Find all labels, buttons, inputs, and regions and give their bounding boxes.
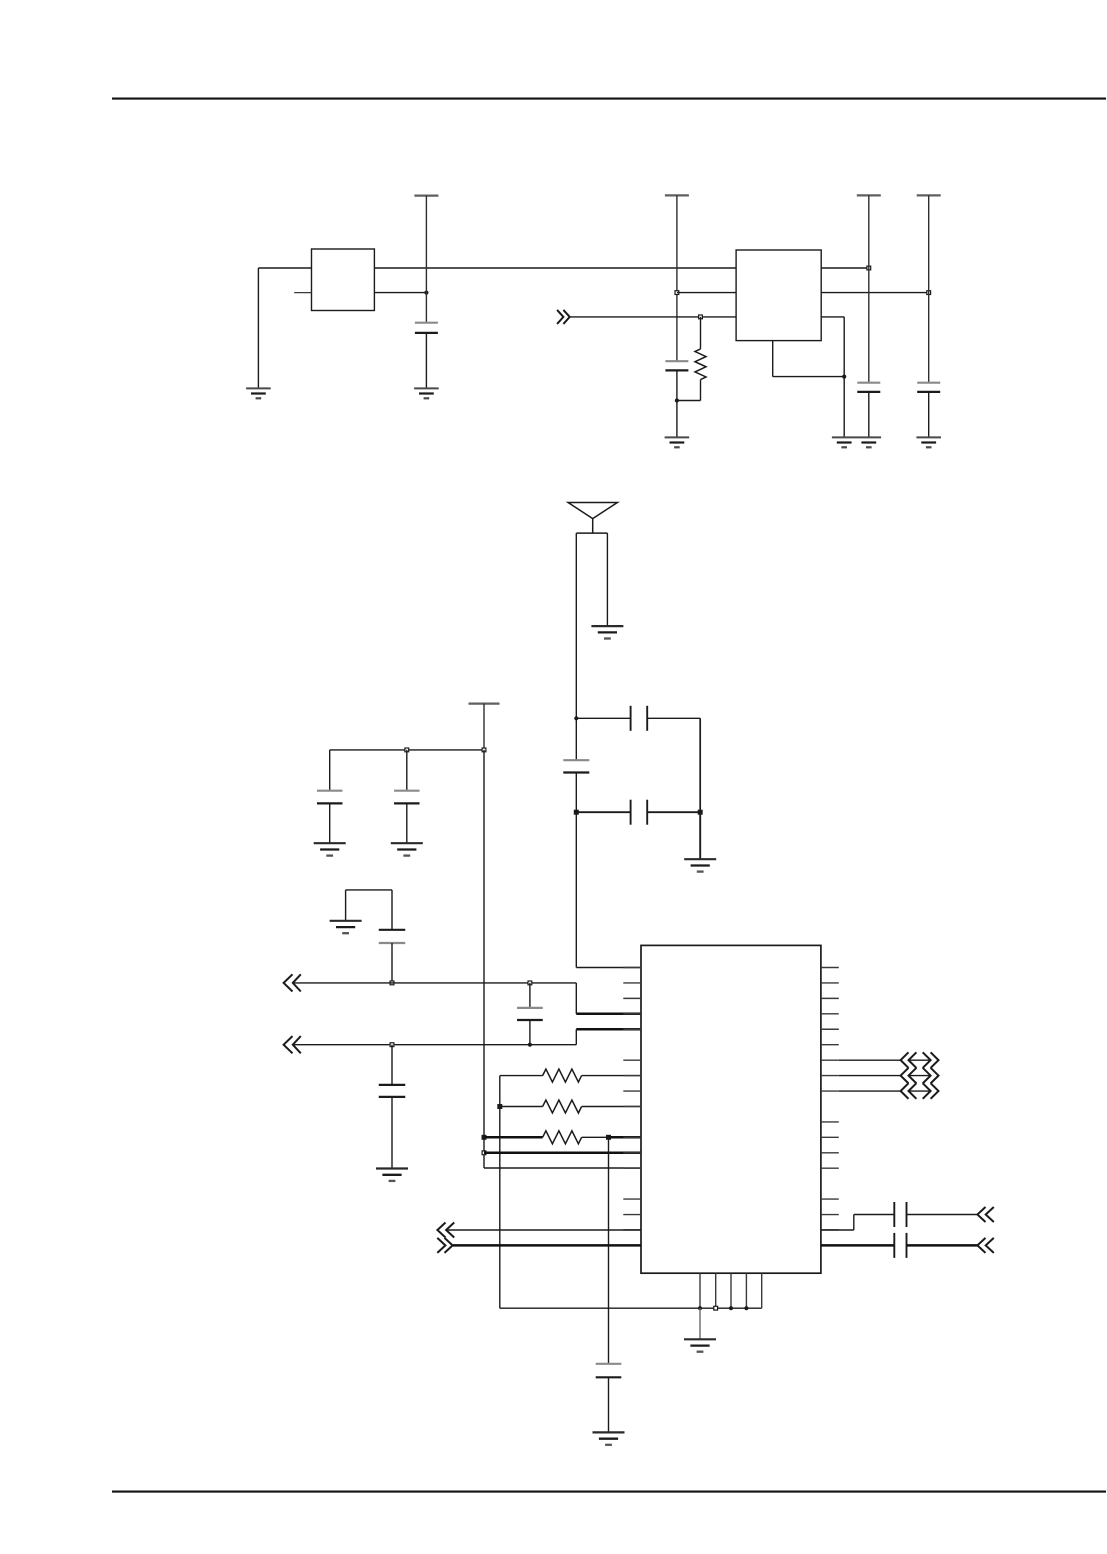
capacitor C10	[379, 930, 406, 943]
node J20	[482, 1151, 486, 1155]
antenna ANT1	[568, 503, 617, 519]
wire U2 bottom right	[773, 376, 845, 378]
capacitor C12	[379, 1085, 406, 1097]
resistor R1	[695, 349, 706, 380]
node J9	[574, 810, 578, 814]
wire RF main upper	[575, 533, 577, 760]
page top rule	[112, 98, 1106, 100]
power VCC3	[857, 195, 881, 382]
capacitor C5	[631, 706, 648, 731]
IC U3 bottom pin stubs	[700, 1273, 762, 1308]
node J16	[390, 1043, 394, 1047]
antenna feed bar	[576, 532, 607, 534]
wire to ground stem	[699, 812, 701, 859]
port arrow P1	[284, 974, 293, 991]
rail wire	[330, 749, 484, 751]
node J2	[675, 291, 679, 295]
power VCC2	[665, 195, 689, 361]
capacitor C14	[894, 1202, 906, 1227]
ground G13	[593, 1432, 625, 1444]
wire U1 out to U2	[374, 267, 736, 269]
ground G10	[391, 843, 423, 855]
node J19	[607, 1135, 611, 1139]
node J7	[842, 375, 846, 379]
regulator U1	[312, 249, 375, 311]
node J21	[698, 1306, 702, 1310]
wire gnd hook	[346, 889, 392, 891]
ground G7	[591, 626, 623, 638]
port arrow bus3	[839, 1083, 939, 1099]
wire C8 down	[329, 803, 331, 843]
ground G12	[376, 1169, 408, 1181]
node J11	[405, 748, 409, 752]
wire antenna gnd leg	[606, 533, 608, 626]
bottom pin bus	[500, 1307, 762, 1309]
ground G9	[314, 843, 346, 855]
wire C13 down	[608, 1377, 610, 1432]
wire x608 down	[608, 1137, 610, 1364]
node J14	[528, 981, 532, 985]
node J15	[528, 1043, 532, 1047]
resistor R3	[543, 1100, 582, 1113]
node J1	[424, 291, 428, 295]
capacitor C15	[894, 1233, 906, 1258]
wire pin17 step	[821, 1229, 854, 1231]
port arrow P6	[437, 1238, 445, 1253]
ground G14	[684, 1339, 716, 1351]
wire down x844	[843, 317, 845, 438]
capacitor C3	[857, 383, 880, 392]
capacitor C12 lead	[391, 1045, 393, 1085]
resistor R2 lead	[500, 1075, 543, 1077]
capacitor C8 lead	[329, 750, 331, 791]
wire C12 down	[391, 1097, 393, 1169]
ground G11	[330, 921, 362, 933]
port arrow EN	[557, 310, 563, 324]
wire P2 step up	[575, 1029, 577, 1044]
wire P6	[453, 1244, 641, 1247]
capacitor C2	[665, 361, 688, 370]
wire C2 down	[676, 370, 678, 437]
ground G5	[857, 437, 882, 447]
wire U1 input down	[257, 268, 259, 388]
IC U3 right pin stubs	[821, 968, 839, 1246]
capacitor C8	[317, 791, 343, 804]
capacitor C10 lead	[391, 890, 393, 930]
ground G1	[246, 388, 271, 398]
capacitor C4	[917, 383, 940, 392]
wire RF to U3 pin1	[576, 967, 641, 969]
capacitor C9	[394, 791, 420, 804]
wire J2 to U2	[677, 292, 736, 294]
wire P2 to pin	[576, 1028, 641, 1031]
wire U2 rowC stub	[821, 316, 844, 318]
wire P5	[446, 1229, 641, 1231]
wire U1 input left	[258, 267, 311, 269]
wire P1	[293, 982, 577, 984]
resistor R4	[543, 1131, 582, 1144]
wire C11 down	[529, 1020, 531, 1045]
resistor R3 lead	[500, 1106, 543, 1108]
wire C14 to port	[907, 1214, 978, 1216]
port arrow bus2	[839, 1068, 939, 1084]
wire C3 down	[868, 392, 870, 438]
node J18	[482, 1135, 486, 1139]
wire C10 down	[391, 943, 393, 983]
node J3	[867, 266, 871, 270]
page bottom rule	[112, 1491, 1106, 1493]
wire match bottom	[576, 811, 630, 813]
node J13	[390, 981, 394, 985]
capacitor C11	[517, 1008, 543, 1020]
wire gnd stem	[699, 1308, 701, 1339]
wire match top	[576, 717, 630, 719]
wire C9 down	[406, 803, 408, 843]
node J12	[482, 748, 486, 752]
U1 pin stub left	[294, 292, 311, 294]
wire EN	[570, 316, 736, 318]
node J22	[714, 1306, 718, 1310]
wire U2 right rowB	[821, 292, 929, 294]
wire RF main lower	[575, 773, 577, 968]
resistor R3 lead2	[582, 1106, 641, 1108]
IC U3	[641, 945, 821, 1273]
power VCC4	[917, 195, 941, 382]
power VCC5	[469, 704, 500, 750]
wire P1 step down	[575, 983, 577, 1014]
power VCC1	[414, 196, 438, 323]
ground G3	[665, 437, 690, 447]
wire row13	[484, 1167, 641, 1169]
wire P1 to pin	[576, 1013, 641, 1016]
capacitor C13	[596, 1364, 622, 1378]
port arrow P5	[437, 1223, 445, 1238]
port arrow P3	[977, 1207, 985, 1222]
port arrow P4	[977, 1238, 985, 1253]
IC U3 left pin stubs	[623, 968, 641, 1246]
wire R4 to pin	[609, 1136, 642, 1139]
capacitor C1	[415, 323, 438, 333]
wire C15 to port	[907, 1244, 978, 1247]
capacitor C9 lead	[406, 750, 408, 791]
node J6	[675, 398, 679, 402]
node J23	[729, 1306, 733, 1310]
resistor R1 lead	[700, 317, 702, 349]
regulator U2	[736, 250, 821, 341]
wire bus row	[484, 1152, 641, 1155]
node J10	[698, 810, 702, 814]
ground G6	[916, 437, 941, 447]
capacitor C11 lead	[529, 983, 531, 1008]
wire C4 down	[928, 392, 930, 438]
wire gnd hook down	[345, 890, 347, 921]
wire U1 out2	[374, 292, 426, 294]
wire x500 down	[499, 1076, 501, 1309]
node J17	[498, 1105, 502, 1109]
resistor R4 lead2	[582, 1136, 609, 1138]
wire U2 bottom pin	[772, 341, 774, 377]
long rail down	[483, 750, 485, 1168]
port arrow bus1	[839, 1052, 939, 1068]
capacitor C7	[631, 800, 648, 825]
resistor R1 lead2	[700, 380, 702, 401]
resistor R4 lead	[484, 1136, 543, 1139]
wire C1 to ground	[425, 333, 427, 389]
node J24	[744, 1306, 748, 1310]
resistor R2 lead2	[582, 1075, 641, 1077]
wire U2 right rowA	[821, 267, 869, 269]
ground G8	[684, 859, 716, 871]
node J8	[574, 716, 578, 720]
node J5	[699, 315, 703, 319]
wire P2	[293, 1044, 577, 1046]
wire R1 to C2	[677, 400, 701, 402]
ground G2	[414, 388, 439, 398]
wire pin18	[821, 1244, 894, 1247]
resistor R2	[543, 1069, 582, 1082]
wire x700 down	[699, 718, 701, 812]
ground G4	[832, 437, 857, 447]
port arrow P2	[284, 1036, 293, 1053]
node J4	[927, 291, 931, 295]
capacitor C6	[563, 760, 589, 772]
